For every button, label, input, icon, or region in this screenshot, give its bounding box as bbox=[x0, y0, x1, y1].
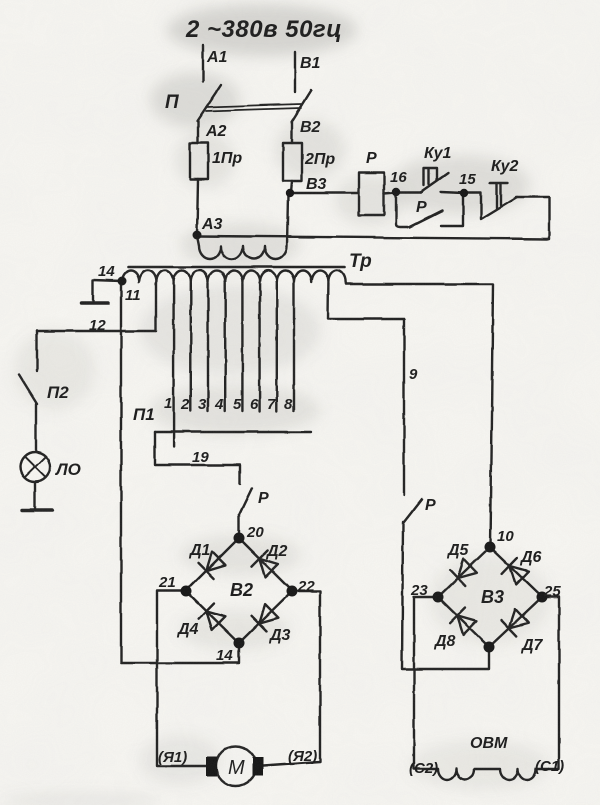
wire coil to node 16 bbox=[384, 192, 396, 193]
node A3 bbox=[193, 231, 202, 240]
diode D3 bbox=[259, 604, 278, 623]
wire 12 horizontal bbox=[37, 330, 156, 332]
wire node22 to motor right bbox=[263, 591, 320, 766]
contact R blade (armature circuit) bbox=[239, 488, 252, 515]
node 21 bbox=[181, 586, 192, 597]
tap 12 bbox=[155, 283, 157, 331]
wire secondary end to node 10 bbox=[346, 284, 493, 547]
wire fuse2 to B3 bbox=[291, 181, 292, 193]
lamp LO bbox=[20, 452, 50, 482]
switch P2 blade bbox=[19, 375, 37, 404]
field winding OVM bbox=[438, 769, 536, 780]
node 25 bbox=[537, 592, 548, 603]
diode D5 bbox=[458, 559, 477, 578]
contact Ku1 actuator symbol bbox=[424, 168, 437, 185]
terminal bar bbox=[22, 508, 52, 511]
wire lamp down bbox=[34, 482, 36, 509]
diode D4 bbox=[206, 611, 225, 630]
selector P1 bar bbox=[155, 431, 311, 433]
node 15 bbox=[460, 189, 468, 197]
diode D6 bbox=[510, 566, 529, 585]
wire Ku2 to right corner bbox=[516, 197, 549, 239]
switch P blade right bbox=[291, 90, 311, 122]
fuse 2Pr bbox=[283, 143, 302, 181]
diode D2 bbox=[259, 558, 278, 577]
contact Ku2 blade bbox=[481, 197, 517, 219]
wire node16 to Ku1 blade bbox=[396, 191, 421, 193]
tap 6 bbox=[258, 283, 260, 411]
tap 7 bbox=[276, 283, 278, 411]
tap 2 bbox=[190, 283, 192, 411]
wire fuse1 to A3 bbox=[197, 179, 198, 233]
node B3 bottom bbox=[484, 642, 495, 653]
wire node21 to motor left bbox=[157, 591, 207, 766]
node 14 (transformer) bbox=[118, 277, 127, 286]
contact R blade (holding) bbox=[410, 211, 442, 227]
tap 4 bbox=[224, 283, 226, 411]
transformer core bbox=[128, 266, 345, 269]
wire node16 down (R holding branch) bbox=[396, 192, 408, 227]
node 14 (bridge B2 bottom) bbox=[234, 638, 245, 649]
long wire node14 down to bridge B2 bottom bbox=[121, 281, 239, 663]
wire OVM right to node 25 bbox=[536, 597, 559, 769]
wire 19 bbox=[155, 432, 240, 484]
diode D1 bbox=[206, 552, 225, 571]
wire node23 down to OVM bbox=[414, 597, 438, 769]
node 20 bbox=[234, 533, 245, 544]
node 10 bbox=[485, 542, 496, 553]
ground bar bbox=[81, 301, 108, 305]
diode D8 bbox=[457, 616, 476, 635]
node 16 bbox=[392, 188, 400, 196]
switch P linkage bar bbox=[206, 104, 301, 111]
contact Ku1 blade bbox=[421, 173, 448, 192]
wire A2 bbox=[197, 121, 199, 143]
tap 5 bbox=[241, 283, 243, 411]
switch P blade left bbox=[197, 85, 221, 121]
phase line B1 bbox=[294, 52, 296, 92]
tap 3 bbox=[207, 283, 209, 411]
transformer primary winding bbox=[197, 194, 288, 259]
bridge B3 arms bbox=[438, 547, 542, 647]
wire Ku1 to node 15 bbox=[441, 192, 464, 193]
tap 9 bbox=[328, 283, 404, 495]
wire node14 left to ground bbox=[93, 280, 122, 301]
transformer secondary winding bbox=[122, 271, 346, 285]
wire holding branch to node15 bbox=[441, 194, 463, 226]
diode D7 bbox=[509, 609, 528, 628]
node 23 bbox=[433, 592, 444, 603]
tap 8 bbox=[293, 283, 295, 411]
bridge B2 arms bbox=[186, 538, 292, 643]
motor brush right bbox=[252, 757, 263, 776]
wire node15 to Ku2 bbox=[464, 193, 481, 218]
motor brush left bbox=[206, 757, 217, 776]
wire to node 20 bbox=[238, 515, 240, 538]
tap 1 bbox=[172, 283, 174, 447]
fuse 1Pr bbox=[190, 143, 208, 179]
relay coil R bbox=[359, 173, 384, 215]
wire B2 bbox=[291, 122, 293, 143]
wire P2 to lamp bbox=[35, 404, 37, 452]
contact R blade (field circuit) bbox=[404, 499, 422, 522]
motor M bbox=[216, 746, 256, 786]
return wire to A3 bbox=[198, 236, 549, 239]
wire B3 node to relay coil bbox=[291, 192, 359, 194]
wire R contact down to B3 bottom bbox=[402, 522, 489, 669]
node B3 bbox=[286, 189, 294, 197]
contact Ku2 actuator symbol bbox=[490, 183, 508, 208]
wire 12 down to switch P2 bbox=[36, 331, 38, 371]
paper noise texture bbox=[0, 0, 1, 1]
phase line A1 bbox=[202, 45, 204, 82]
node 22 bbox=[287, 586, 298, 597]
